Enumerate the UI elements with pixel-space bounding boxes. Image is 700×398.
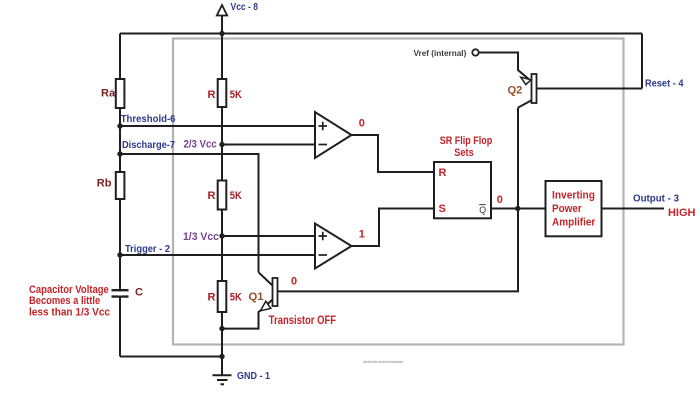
node 2/3 Vcc (219, 142, 224, 147)
inner IC boundary (gray box) (173, 39, 624, 345)
svg-text:R: R (208, 89, 216, 101)
wire Vref to Q2 emitter (479, 53, 529, 80)
wire Q2 bottom diagonal (518, 100, 532, 107)
svg-text:Inverting: Inverting (552, 190, 595, 202)
svg-text:R: R (208, 190, 216, 202)
svg-text:5K: 5K (230, 190, 242, 202)
Q1 emitter arrowhead (261, 301, 271, 311)
svg-text:Transistor OFF: Transistor OFF (269, 315, 336, 327)
svg-text:0: 0 (497, 194, 503, 206)
svg-text:tabtlahtriaheriaiablaiah: tabtlahtriaheriaiablaiah (363, 359, 403, 364)
svg-text:Capacitor Voltage: Capacitor Voltage (29, 284, 109, 296)
svg-text:R: R (439, 167, 447, 179)
svg-text:1: 1 (359, 229, 365, 241)
svg-text:Power: Power (552, 203, 582, 215)
wire Q2 base to reset (537, 88, 643, 90)
svg-text:Rb: Rb (97, 178, 112, 190)
transistor Q1 (NPN discharge) (273, 278, 278, 306)
node Vcc junction (219, 31, 224, 36)
svg-text:Amplifier: Amplifier (552, 217, 596, 229)
svg-text:Output - 3: Output - 3 (633, 194, 679, 205)
wire threshold line (120, 125, 315, 127)
wire comparator2 output to S input (352, 209, 435, 247)
wire left rail (119, 34, 121, 357)
svg-text:Threshold-6: Threshold-6 (121, 114, 176, 125)
SR flip flop box (434, 162, 491, 218)
wire Vcc stem (221, 16, 223, 34)
node ground junction (219, 354, 224, 359)
op-amp comparator 2 (trigger) (315, 224, 352, 269)
wire Q1 collector diagonal (259, 272, 273, 285)
resistor Ra (116, 79, 125, 108)
svg-text:GND - 1: GND - 1 (237, 371, 270, 382)
svg-text:Reset - 4: Reset - 4 (645, 79, 684, 90)
wire comparator1 output to R input (352, 135, 435, 172)
svg-text:less than 1/3 Vcc: less than 1/3 Vcc (29, 306, 110, 318)
wire top supply rail (120, 33, 642, 35)
inverting power amplifier box (546, 181, 602, 236)
svg-text:Vcc - 8: Vcc - 8 (231, 2, 259, 13)
wire Q2 collector down to Q1 base (278, 108, 519, 292)
svg-text:R: R (208, 292, 216, 304)
svg-text:C: C (135, 287, 143, 299)
wire 2/3 Vcc line (222, 144, 315, 146)
svg-text:HIGH: HIGH (668, 207, 695, 219)
op-amp comparator 1 (threshold) (315, 112, 352, 158)
wire bottom rail (120, 356, 222, 358)
svg-text:Vref (internal): Vref (internal) (414, 49, 467, 58)
node R3 bottom (219, 326, 224, 331)
transistor Q2 (PNP reset) (532, 74, 537, 103)
svg-text:Q: Q (479, 205, 486, 215)
node discharge (117, 151, 122, 156)
Q2 emitter arrowhead (521, 77, 531, 84)
resistor R 5K middle (218, 181, 227, 210)
wire flip-flop output to amplifier (491, 208, 546, 210)
svg-text:0: 0 (291, 276, 297, 288)
wire 1/3 Vcc line (222, 235, 315, 237)
svg-text:Q1: Q1 (249, 291, 264, 303)
wire trigger line (120, 254, 315, 256)
wire middle divider chain (221, 34, 223, 376)
svg-text:SR Flip Flop: SR Flip Flop (440, 135, 493, 147)
svg-text:Becomes a little: Becomes a little (29, 295, 100, 307)
node 1/3 Vcc (219, 233, 224, 238)
resistor R 5K top (218, 79, 227, 107)
svg-text:2/3 Vcc: 2/3 Vcc (184, 138, 217, 150)
svg-text:Sets: Sets (454, 147, 473, 159)
capacitor C (112, 290, 129, 296)
svg-text:Trigger - 2: Trigger - 2 (125, 244, 170, 255)
svg-text:Discharge-7: Discharge-7 (122, 140, 175, 151)
svg-text:5K: 5K (230, 292, 242, 304)
svg-text:Ra: Ra (101, 88, 116, 100)
svg-text:1/3 Vcc: 1/3 Vcc (183, 231, 219, 243)
node threshold (117, 123, 122, 128)
wire output line pin3 (602, 208, 665, 210)
svg-text:0: 0 (359, 117, 365, 129)
svg-text:5K: 5K (230, 89, 242, 101)
resistor Rb (116, 172, 125, 199)
node trigger (117, 252, 122, 257)
Vref open terminal (472, 49, 478, 55)
svg-text:S: S (439, 203, 446, 215)
Vcc terminal arrow (217, 5, 227, 16)
node flip-flop output junction (515, 206, 520, 211)
wire Q1 emitter path to ground node (222, 300, 273, 329)
wire discharge line (120, 154, 259, 272)
ground symbol (213, 375, 232, 384)
resistor R 5K bottom (218, 281, 227, 312)
svg-text:Q2: Q2 (508, 85, 523, 97)
wire right drop to reset line (641, 34, 643, 89)
